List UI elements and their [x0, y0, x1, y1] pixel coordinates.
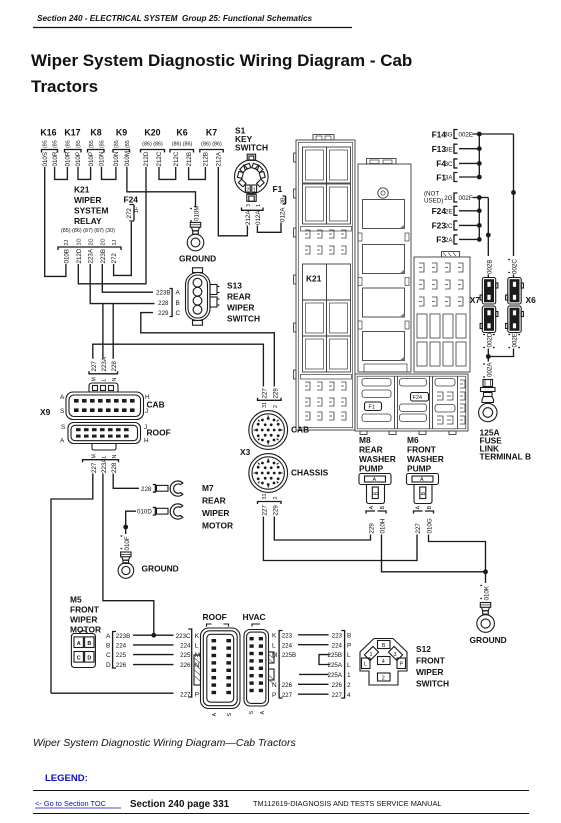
wire row A 223B-223C [133, 634, 174, 636]
svg-text:1: 1 [347, 672, 351, 679]
svg-text:(NOT: (NOT [424, 191, 439, 198]
switch S13 rear wiper [186, 268, 261, 325]
svg-text:225A: 225A [328, 672, 343, 679]
svg-text:212D: 212D [76, 248, 83, 263]
relay K6 [170, 128, 194, 167]
svg-text:TM112619-DIAGNOSIS AND TESTS S: TM112619-DIAGNOSIS AND TESTS SERVICE MAN… [253, 799, 442, 808]
svg-text:2: 2 [347, 682, 351, 689]
svg-text:A: A [60, 438, 65, 445]
svg-text:F24: F24 [124, 195, 139, 205]
wire 010S K16 to K21 010B [45, 167, 66, 276]
svg-text:212B: 212B [203, 152, 210, 166]
relay K9 [113, 128, 131, 167]
svg-text:A: A [369, 506, 375, 510]
svg-text:A: A [60, 394, 65, 401]
svg-text:010S: 010S [42, 152, 49, 166]
S12 labels [416, 644, 449, 689]
svg-text:010P: 010P [88, 152, 95, 166]
svg-text:3: 3 [394, 652, 397, 658]
svg-text:A: A [416, 506, 422, 510]
svg-text:010N: 010N [113, 152, 120, 167]
wire K16-K17 chain [55, 167, 68, 179]
svg-text:M6: M6 [407, 435, 419, 445]
svg-text:X9: X9 [40, 407, 51, 417]
svg-text:1G: 1G [77, 238, 83, 245]
svg-text:(85: (85 [125, 140, 131, 148]
svg-text:224: 224 [116, 643, 127, 650]
svg-text:Wiper System Diagnostic Wiring: Wiper System Diagnostic Wiring Diagram -… [31, 51, 412, 70]
wire 223B K21 to S13 A [102, 264, 153, 292]
svg-text:PUMP: PUMP [359, 464, 384, 474]
svg-text:3C: 3C [445, 161, 453, 168]
svg-text:M: M [92, 454, 98, 459]
svg-text:010R: 010R [52, 151, 59, 166]
svg-text:223A: 223A [88, 248, 95, 263]
svg-text:A: A [420, 477, 424, 483]
wire 227 X9 roof M down-left-down to P row [51, 474, 93, 694]
wire 229 S13 C to X3 [141, 313, 274, 387]
svg-text:WASHER: WASHER [407, 454, 444, 464]
svg-text:226: 226 [282, 682, 293, 689]
svg-text:B: B [380, 506, 386, 510]
wire F24 to bus [459, 210, 479, 212]
svg-text:A: A [260, 711, 266, 715]
pump M6 connector [407, 474, 439, 504]
svg-text:S13: S13 [227, 281, 242, 291]
svg-text:226: 226 [116, 662, 127, 669]
wire row D 226 [133, 664, 174, 666]
wire F3 to bus [459, 238, 479, 240]
motor M7 labels [202, 483, 233, 531]
svg-text:227: 227 [91, 462, 98, 473]
svg-text:010F: 010F [124, 536, 131, 550]
svg-text:K17: K17 [64, 128, 80, 138]
wire branch X9 N 228 [112, 304, 114, 359]
S13 bracket labels [156, 289, 180, 318]
svg-text:010K: 010K [484, 585, 491, 600]
svg-text:227: 227 [262, 388, 269, 399]
svg-text:L: L [347, 662, 351, 669]
wire 002B vertical [487, 198, 489, 257]
svg-text:Section 240 page 331: Section 240 page 331 [130, 799, 230, 810]
svg-text:2: 2 [273, 405, 279, 408]
svg-text:M8: M8 [359, 435, 371, 445]
svg-text:1F: 1F [134, 206, 140, 213]
svg-text:P: P [272, 692, 276, 699]
relay K16 [40, 128, 58, 167]
svg-text:223: 223 [282, 632, 293, 639]
svg-text:K21: K21 [74, 185, 90, 195]
svg-text:2: 2 [382, 676, 385, 682]
connector X6 [506, 278, 536, 333]
svg-text:K6: K6 [176, 128, 187, 138]
fuse F1 [273, 184, 287, 222]
svg-text:002D: 002D [486, 332, 493, 347]
svg-text:B: B [176, 300, 180, 307]
fuse box right panel [414, 252, 470, 373]
wire K20-K6 chain [159, 167, 176, 179]
svg-text:HVAC: HVAC [243, 612, 266, 622]
svg-text:2J: 2J [64, 240, 70, 246]
HVAC right bracket [272, 631, 296, 699]
svg-text:228: 228 [141, 486, 152, 493]
svg-text:K16: K16 [40, 128, 56, 138]
svg-text:B: B [106, 643, 110, 650]
svg-text:(85: (85 [43, 140, 49, 148]
svg-text:002C: 002C [512, 259, 519, 274]
svg-text:K21: K21 [306, 274, 322, 284]
motor M5 labels [70, 595, 101, 635]
svg-text:K7: K7 [206, 128, 217, 138]
svg-text:225B: 225B [328, 652, 342, 659]
M6 bracket [414, 506, 434, 534]
svg-text:4: 4 [347, 692, 351, 699]
svg-text:M: M [272, 652, 277, 659]
connector X7 [470, 278, 498, 333]
svg-text:223: 223 [332, 632, 343, 639]
svg-text:F24: F24 [413, 395, 422, 401]
svg-text:SWITCH: SWITCH [227, 314, 260, 324]
bus group1 [478, 134, 480, 177]
svg-text:227: 227 [262, 505, 269, 516]
fuse F1 row [436, 172, 457, 182]
svg-text:N: N [112, 378, 118, 382]
svg-text:F1: F1 [369, 405, 375, 411]
svg-text:K: K [272, 632, 277, 639]
svg-text:226: 226 [332, 682, 343, 689]
svg-text:1: 1 [253, 188, 256, 194]
svg-text:012A: 012A [255, 210, 262, 225]
svg-text:K9: K9 [116, 128, 127, 138]
fuse F24 row [432, 206, 458, 216]
svg-text:K: K [195, 633, 200, 640]
svg-text:B: B [427, 506, 433, 510]
bus group2 [478, 198, 480, 240]
svg-text:227: 227 [332, 692, 343, 699]
motor M5 connector [71, 631, 95, 668]
svg-text:(85: (85 [66, 140, 72, 148]
wire K8-K9 chain [102, 167, 116, 179]
wire 212A K7 to S1 pin3 [218, 167, 247, 236]
svg-text:223C: 223C [176, 633, 191, 640]
svg-text:L: L [347, 652, 351, 659]
svg-text:010R: 010R [65, 151, 72, 166]
svg-text:A: A [77, 641, 81, 647]
svg-text:WASHER: WASHER [359, 454, 396, 464]
svg-text:3: 3 [246, 204, 252, 207]
svg-text:(85: (85 [76, 140, 82, 148]
wire K17-K8 chain [78, 167, 91, 179]
svg-text:2A: 2A [445, 237, 453, 244]
svg-text:B: B [421, 492, 427, 496]
fuse F13 row [432, 144, 458, 154]
svg-text:(86) (86): (86) (86) [172, 142, 193, 148]
pump M8 connector [359, 474, 391, 504]
svg-text:M7: M7 [202, 483, 214, 493]
svg-text:RELAY: RELAY [74, 216, 102, 226]
svg-text:223B: 223B [100, 249, 107, 263]
svg-text:3G: 3G [444, 132, 452, 139]
svg-text:L: L [364, 662, 367, 668]
svg-text:224: 224 [282, 642, 293, 649]
svg-text:CHASSIS: CHASSIS [291, 468, 329, 478]
wire 010D to ground splice [126, 511, 136, 527]
svg-text:002A: 002A [486, 362, 493, 377]
svg-text:FRONT: FRONT [70, 605, 100, 615]
wire 225A to S12 1 [299, 673, 329, 675]
fuse box left panel [294, 135, 355, 431]
svg-text:010H: 010H [380, 519, 387, 534]
svg-text:N: N [112, 455, 118, 459]
svg-text:212C: 212C [173, 151, 180, 166]
footer [33, 790, 529, 792]
X9 cab housing [89, 383, 118, 392]
svg-text:223B: 223B [156, 290, 170, 297]
wire row P 227 [51, 692, 174, 694]
wire F13 to bus [459, 148, 479, 150]
svg-text:GROUND: GROUND [470, 635, 507, 645]
svg-text:L: L [102, 456, 108, 459]
svg-text:223A: 223A [101, 458, 108, 473]
S1 bracket [242, 208, 264, 211]
svg-text:2G: 2G [89, 238, 95, 245]
X9 roof housing [68, 423, 141, 444]
svg-text:Tractors: Tractors [31, 77, 98, 96]
svg-text:B: B [382, 643, 386, 649]
ROOF left bracket [176, 629, 200, 699]
svg-text:2E: 2E [445, 208, 453, 215]
svg-text:228: 228 [111, 462, 118, 473]
svg-text:ROOF: ROOF [203, 612, 227, 622]
svg-text:212A: 212A [245, 210, 252, 225]
wire F1 to bus [459, 176, 479, 178]
svg-text:272: 272 [111, 253, 118, 264]
wire label 002D [483, 332, 495, 347]
svg-text:LEGEND:: LEGEND: [45, 773, 88, 784]
svg-text:002E: 002E [512, 333, 519, 347]
svg-text:H: H [144, 438, 149, 445]
wire 227 X9 M to X3 [93, 344, 264, 386]
ground terminal G2 [118, 527, 179, 578]
wire 226 to S12 2 [298, 683, 329, 685]
fuse F1 location label [365, 402, 382, 411]
svg-text:ROOF: ROOF [147, 428, 171, 438]
svg-text:K8: K8 [90, 128, 101, 138]
fuse F24 location label [411, 393, 429, 402]
key switch S1 [235, 126, 269, 202]
svg-text:S: S [61, 424, 65, 431]
wire 223 to S12 B [298, 634, 329, 636]
fuse F3 row [436, 235, 457, 245]
svg-text:010G: 010G [427, 518, 434, 533]
svg-text:272: 272 [126, 208, 133, 219]
svg-text:C: C [77, 655, 81, 661]
fuse link 125A terminal B [479, 380, 531, 462]
svg-text:S: S [249, 711, 255, 715]
wire F4 to bus [459, 162, 479, 164]
S12 bracket [328, 631, 352, 699]
svg-text:D: D [87, 655, 91, 661]
wire label 002A [483, 362, 493, 377]
svg-text:X7: X7 [470, 295, 481, 305]
svg-text:(85: (85 [53, 140, 59, 148]
relay K20 [141, 128, 165, 167]
wire 229 X3 to M8 A [274, 517, 370, 541]
relay K7 [200, 128, 223, 167]
svg-text:REAR: REAR [202, 496, 226, 506]
wire label 002E [508, 333, 520, 347]
svg-text:(85: (85 [114, 140, 120, 148]
K21 wire labels [63, 248, 118, 263]
svg-text:229: 229 [273, 388, 280, 399]
wire 010H M8 B to ground junction [382, 535, 486, 572]
svg-text:FRONT: FRONT [416, 656, 446, 666]
svg-text:227: 227 [91, 361, 98, 372]
fuse box bottom strip [355, 374, 468, 435]
M7 fork terminal 010D [137, 504, 183, 519]
connector X9 [40, 356, 171, 473]
svg-text:010P: 010P [75, 152, 82, 166]
svg-text:225A: 225A [328, 662, 343, 669]
svg-text:1: 1 [370, 652, 373, 658]
svg-text:P: P [195, 692, 199, 699]
svg-text:227: 227 [415, 523, 422, 534]
wire 227 to S12 4 [298, 693, 329, 695]
svg-text:<- Go to Section TOC: <- Go to Section TOC [35, 799, 107, 808]
pump M8 labels [359, 435, 396, 474]
svg-text:212B: 212B [186, 152, 193, 166]
wire 224 to S12 P [298, 644, 329, 646]
svg-text:FRONT: FRONT [407, 445, 437, 455]
svg-text:2G: 2G [444, 195, 452, 202]
svg-text:A: A [212, 713, 218, 717]
svg-text:(85: (85 [89, 140, 95, 148]
svg-text:F1: F1 [273, 184, 283, 194]
svg-text:SWITCH: SWITCH [416, 679, 449, 689]
svg-text:A: A [106, 633, 111, 640]
fuse F14 row [432, 129, 473, 139]
svg-text:K20: K20 [144, 128, 160, 138]
wire X7 X6 join to 002A [488, 349, 513, 362]
svg-text:C: C [106, 652, 111, 659]
svg-text:A: A [373, 477, 377, 483]
wire 223A X9 roof L down to row A junction [103, 474, 154, 636]
svg-text:B: B [87, 641, 91, 647]
wire 012A S1 pin1 to F1 [257, 223, 281, 233]
svg-text:227: 227 [282, 692, 293, 699]
svg-text:M: M [195, 652, 200, 659]
svg-text:REAR: REAR [359, 445, 383, 455]
svg-text:212D: 212D [143, 151, 150, 166]
svg-text:B: B [374, 492, 380, 496]
svg-text:N: N [272, 682, 277, 689]
svg-text:SYSTEM: SYSTEM [74, 206, 108, 216]
svg-text:Wiper System Diagnostic Wiring: Wiper System Diagnostic Wiring Diagram—C… [33, 737, 297, 749]
svg-text:X3: X3 [240, 447, 251, 457]
svg-text:S12: S12 [416, 644, 431, 654]
svg-text:WIPER: WIPER [74, 195, 101, 205]
svg-text:M: M [92, 377, 98, 382]
svg-text:010M: 010M [194, 206, 201, 221]
X3 chassis circle [249, 454, 288, 493]
connector ROOF [194, 612, 240, 717]
wire F14 to bus [473, 133, 514, 135]
ground terminal G3 [470, 572, 507, 645]
relay K21 label [74, 185, 108, 227]
svg-text:CAB: CAB [291, 425, 309, 435]
wire branch X9 L 223A [102, 304, 104, 359]
svg-text:SWITCH: SWITCH [235, 143, 268, 153]
svg-text:3A: 3A [445, 175, 453, 182]
wire 212D K20 to K21 [78, 167, 146, 284]
svg-text:31: 31 [262, 402, 268, 408]
wire 228 X9 roof N to M7 [113, 474, 139, 489]
svg-text:(85: (85 [100, 140, 106, 148]
wire 225B jog 225A [319, 655, 330, 665]
svg-text:212C: 212C [156, 151, 163, 166]
svg-text:226: 226 [180, 662, 191, 669]
svg-text:012A: 012A [280, 207, 287, 222]
svg-text:REAR: REAR [227, 292, 251, 302]
svg-text:(86) (86): (86) (86) [142, 142, 163, 148]
fuse box middle panel [358, 159, 411, 373]
X3 cab circle [249, 411, 288, 450]
svg-text:Section 240 - ELECTRICAL SYSTE: Section 240 - ELECTRICAL SYSTEM Group 25… [37, 14, 313, 23]
svg-text:C: C [176, 310, 181, 317]
svg-text:225: 225 [180, 652, 191, 659]
relay K8 [88, 128, 106, 167]
svg-text:31: 31 [262, 494, 268, 500]
svg-text:002B: 002B [486, 260, 493, 274]
ground terminal G1 [179, 206, 216, 264]
M7 fork terminal 228 [141, 481, 183, 496]
svg-text:P: P [347, 642, 351, 649]
connector HVAC [243, 612, 275, 715]
svg-text:002F: 002F [459, 195, 473, 202]
svg-text:223B: 223B [116, 633, 130, 640]
svg-text:TERMINAL B: TERMINAL B [480, 452, 532, 462]
svg-text:L: L [272, 642, 276, 649]
wire 223A K21 / 228 to S13 B with X9 branches [90, 264, 154, 304]
svg-text:224: 224 [180, 643, 191, 650]
svg-text:225: 225 [116, 652, 127, 659]
svg-text:212A: 212A [216, 151, 223, 166]
svg-text:GROUND: GROUND [179, 254, 216, 264]
fuse F4 row [436, 159, 457, 169]
wire row C 225 [133, 654, 174, 656]
svg-text:D: D [106, 662, 111, 669]
svg-text:2: 2 [246, 188, 249, 194]
connector X3 [240, 388, 329, 516]
svg-text:P: P [400, 662, 404, 668]
wire row B 224 [133, 644, 174, 646]
K21 bracket [58, 247, 121, 250]
svg-text:M5: M5 [70, 595, 82, 605]
svg-text:010M: 010M [124, 151, 131, 166]
svg-text:2G: 2G [101, 238, 107, 245]
svg-text:1: 1 [256, 204, 262, 207]
svg-text:4: 4 [382, 659, 385, 665]
svg-text:010B: 010B [63, 249, 70, 263]
relay K17 [64, 128, 82, 167]
wire 010M K9 to ground [127, 167, 196, 208]
svg-text:223A: 223A [101, 356, 108, 371]
pump M6 labels [407, 435, 444, 474]
svg-text:(86) (86): (86) (86) [201, 142, 222, 148]
svg-text:GROUND: GROUND [142, 564, 179, 574]
svg-text:S: S [227, 713, 233, 717]
svg-text:CAB: CAB [147, 400, 165, 410]
